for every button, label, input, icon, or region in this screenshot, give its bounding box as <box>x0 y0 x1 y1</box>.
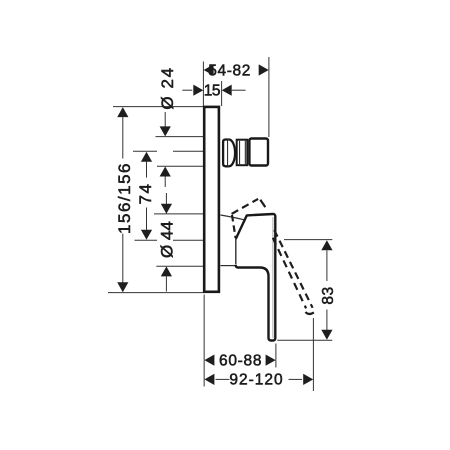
dimension 83 (lever length) <box>321 240 332 250</box>
wire: hub bottom edge extension <box>156 265 203 267</box>
dimension Ø44 (hub diameter) <box>165 193 167 204</box>
wire: extension line at port end face (top) <box>268 57 270 137</box>
wire: upper port bottom edge extension <box>157 165 203 167</box>
svg-text:15: 15 <box>204 83 220 100</box>
dimension 60-88 <box>204 355 214 366</box>
wire: extension line from lever tip (83 bottom) <box>277 339 332 341</box>
svg-text:156/156: 156/156 <box>115 162 134 234</box>
wall plate (escutcheon) <box>204 107 219 292</box>
wire: bottom extension line of plate (left) <box>108 292 203 294</box>
wire: bottom extension from lever tip <box>275 344 277 368</box>
svg-text:54-82: 54-82 <box>208 62 251 79</box>
wire: upper port top edge extension <box>156 136 204 138</box>
wire: bottom extension from plate back face <box>203 295 205 387</box>
node: center line of handle hub <box>135 239 158 241</box>
dimension 54-82 (installation depth) <box>204 64 214 75</box>
dimension 156/156 (plate height) <box>117 107 128 117</box>
wire: extension line at plate back face (top) <box>202 62 204 107</box>
dimension 92-120 <box>204 374 214 385</box>
lever handle (closed position) <box>236 214 276 341</box>
wire: hub top edge extension <box>154 213 203 215</box>
upper port: collar with dome <box>223 140 229 167</box>
dimension Ø24 (upper port diameter) <box>164 112 166 127</box>
upper port: coupling nut <box>237 140 248 166</box>
valve body behind handle <box>221 215 245 220</box>
wire: extension line at plate front face (top) <box>221 81 223 106</box>
dimension 15 (plate thickness) <box>182 89 192 91</box>
upper port: end sleeve <box>249 139 268 166</box>
node: center line of upper port <box>133 150 157 152</box>
wire: top extension line of plate (left) <box>113 106 203 108</box>
svg-text:Ø 24: Ø 24 <box>158 66 177 109</box>
svg-text:74: 74 <box>136 183 155 205</box>
svg-text:92-120: 92-120 <box>229 372 283 389</box>
wire: extension line from hub pivot (83 top) <box>284 239 332 241</box>
lever handle open position (dashed) <box>232 199 314 314</box>
dimension 74 (port spacing) <box>141 152 152 162</box>
wire: bottom extension from open lever tip <box>312 318 314 391</box>
svg-text:Ø 44: Ø 44 <box>157 221 176 258</box>
svg-text:60-88: 60-88 <box>219 352 262 369</box>
svg-text:83: 83 <box>320 286 337 304</box>
